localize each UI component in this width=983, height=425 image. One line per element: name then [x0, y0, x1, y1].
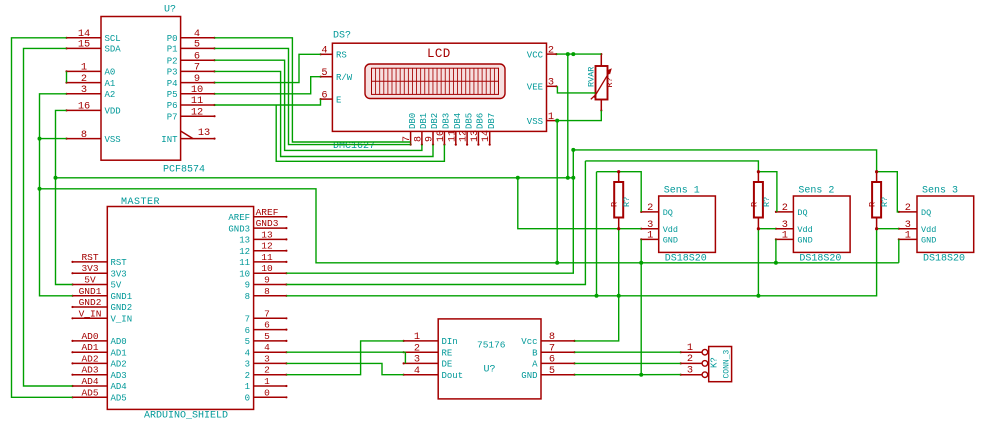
net label 3 (right) — [264, 353, 270, 364]
svg-text:4: 4 — [414, 365, 420, 377]
resistor R2 top pin — [757, 171, 759, 182]
pin name DB2 of DS1 — [430, 113, 440, 129]
svg-text:3: 3 — [414, 354, 420, 366]
svg-text:8: 8 — [245, 292, 250, 302]
svg-text:GND: GND — [921, 236, 936, 246]
junction LCD VSS drop — [555, 119, 559, 123]
sensor S2 DS18S20 body — [793, 196, 850, 252]
svg-text:DB3: DB3 — [442, 113, 452, 129]
svg-text:75176: 75176 — [477, 340, 506, 351]
pin name VEE of DS1 — [527, 83, 543, 93]
net label GND3 (right) — [256, 218, 279, 229]
IC U1 PCF8574 body — [101, 17, 181, 161]
junction 5V bus at D10 riser — [571, 176, 575, 180]
pin 2 A1 of U1 (left stub) — [65, 82, 101, 84]
svg-text:Sens 2: Sens 2 — [798, 186, 834, 197]
pin name RE of U3 — [442, 348, 453, 358]
svg-text:Vdd: Vdd — [797, 225, 812, 235]
svg-text:2: 2 — [245, 371, 250, 381]
svg-text:8: 8 — [81, 129, 87, 141]
svg-text:5: 5 — [264, 331, 270, 342]
svg-text:LCD: LCD — [427, 47, 451, 61]
svg-text:9: 9 — [245, 281, 250, 291]
label DS1 value DMC1627 — [333, 141, 375, 152]
pin name SDA of U1 — [105, 45, 122, 55]
pin name 1 of U2 — [245, 382, 250, 392]
label R4 name RVAR — [587, 67, 597, 87]
pin name VSS of DS1 — [527, 117, 543, 127]
svg-text:7: 7 — [194, 62, 200, 74]
pin number 13 of DS1 — [470, 130, 481, 142]
junction 5V line at D8 riser — [595, 294, 599, 298]
pin name E of DS1 — [336, 95, 341, 105]
pin 4 P0 of U1 (right stub) — [181, 37, 216, 39]
svg-text:ARDUINO_SHIELD: ARDUINO_SHIELD — [144, 411, 228, 422]
pin number 4 of DS1 — [321, 45, 327, 57]
wire net SCL: U1.SCL to U2.AD5 — [12, 38, 73, 398]
svg-text:A2: A2 — [105, 90, 116, 100]
resistor R3 body — [872, 182, 881, 218]
wire net DQ3: R3 top to S3.DQ — [877, 172, 899, 212]
label S3 name Sens 3 — [922, 186, 958, 197]
net label 5 (right) — [264, 331, 270, 342]
svg-text:2: 2 — [687, 353, 693, 365]
pin 8 DB1 of DS1 (bottom stub) — [421, 131, 423, 145]
svg-text:U?: U? — [484, 365, 496, 376]
svg-text:12: 12 — [239, 247, 250, 257]
pin name 11 of U2 — [239, 258, 250, 268]
pin 8 of U2 (right stub) — [254, 295, 288, 297]
pin number 7 of DS1 — [402, 136, 413, 142]
pin name 0 of U2 — [245, 394, 250, 404]
pin name GND2 of U2 — [111, 303, 133, 313]
pin 10 of U2 (right stub) — [254, 272, 288, 274]
pin 4 of U2 (right stub) — [254, 351, 288, 353]
svg-text:GND1: GND1 — [111, 292, 133, 302]
svg-text:GND: GND — [797, 236, 812, 246]
wire net GND: U1.VSS to A2 vertical — [40, 138, 67, 140]
svg-text:5V: 5V — [84, 275, 96, 286]
svg-text:P6: P6 — [167, 101, 178, 111]
svg-text:3V3: 3V3 — [111, 269, 127, 279]
connector K1 CONN_3 body — [709, 347, 732, 382]
wire net VSS: RVAR bottom to LCD.VSS — [556, 111, 601, 121]
pin 6 P2 of U1 (right stub) — [181, 59, 216, 61]
pin number 14 of DS1 — [481, 130, 492, 142]
svg-text:Vcc: Vcc — [521, 337, 537, 347]
pin name P5 of U1 — [167, 90, 178, 100]
pin number 3 of U1 — [81, 84, 87, 96]
svg-text:AREF: AREF — [228, 213, 250, 223]
wire net P0 to LCD DB0 (upper) — [215, 38, 411, 142]
net label 6 (right) — [264, 320, 270, 331]
svg-text:B: B — [532, 348, 538, 358]
junction R3 bottom — [875, 227, 878, 230]
net label AD1 — [81, 342, 98, 353]
pin number 3 of S2 — [782, 219, 788, 231]
svg-text:2: 2 — [548, 44, 554, 56]
svg-text:Vdd: Vdd — [663, 225, 678, 235]
svg-text:2: 2 — [647, 202, 653, 214]
LCD module DS1 body — [332, 43, 546, 131]
net label 4 (right) — [264, 342, 270, 353]
pin number 14 of U1 — [78, 28, 90, 40]
net label GND1 — [79, 286, 102, 297]
net label AD3 — [81, 365, 98, 376]
label S3 value DS18S20 — [923, 254, 965, 265]
pin number 1 of S1 — [647, 230, 653, 242]
pin name DB7 of DS1 — [487, 113, 497, 129]
svg-text:P4: P4 — [167, 79, 178, 89]
pin 3 VEE of DS1 (right stub) — [547, 85, 558, 87]
svg-text:0: 0 — [245, 394, 250, 404]
pin name DB4 of DS1 — [453, 113, 463, 129]
svg-text:2: 2 — [414, 342, 420, 354]
junction 5V bus at VDD vertical — [54, 176, 58, 180]
net label 13 (right) — [261, 229, 273, 240]
svg-text:DS?: DS? — [333, 31, 351, 42]
pin AD3 of U2 (left stub) — [71, 374, 107, 376]
pin 11 of U2 (right stub) — [254, 261, 288, 263]
pin 4 Dout of U3 (left stub) — [403, 374, 439, 376]
pin name A of U3 — [532, 360, 538, 370]
pin number 10 of DS1 — [436, 130, 447, 142]
svg-text:P1: P1 — [167, 45, 178, 55]
wire net U3.A to K1.2 — [575, 362, 681, 364]
pin name A2 of U1 — [105, 90, 116, 100]
pin number 5 of DS1 — [321, 67, 327, 79]
pin name VCC of DS1 — [527, 50, 544, 60]
svg-text:R?: R? — [605, 77, 615, 87]
svg-text:Vdd: Vdd — [921, 225, 936, 235]
svg-text:R: R — [868, 202, 878, 207]
pin 3 of U2 (right stub) — [254, 362, 288, 364]
pin number 8 of DS1 — [413, 136, 424, 142]
net label GND2 — [79, 297, 102, 308]
svg-text:2: 2 — [782, 202, 788, 214]
sensor S3 DS18S20 body — [917, 196, 974, 252]
pin name A0 of U1 — [105, 68, 116, 78]
pin 8 VSS of U1 (left stub) — [65, 138, 101, 140]
junction VCC row second dot — [571, 52, 575, 56]
wire net 5V: U1.VDD down to U2.5V — [56, 110, 73, 284]
pin name A1 of U1 — [105, 79, 116, 89]
svg-text:3: 3 — [81, 84, 87, 96]
pin name DIn of U3 — [442, 337, 458, 347]
pin name 3V3 of U2 — [111, 269, 127, 279]
pin 1 GND of S1 — [640, 238, 659, 240]
pin 3 Vdd of S2 — [775, 228, 794, 230]
pin GND3 of U2 (right stub) — [254, 227, 288, 229]
svg-text:Sens 3: Sens 3 — [922, 186, 958, 197]
pin name 6 of U2 — [245, 326, 250, 336]
svg-text:Sens 1: Sens 1 — [664, 186, 700, 197]
svg-text:DE: DE — [442, 360, 453, 370]
pin number 4 of U3 — [414, 365, 420, 377]
pin AD0 of U2 (left stub) — [71, 340, 107, 342]
svg-text:1: 1 — [905, 230, 911, 242]
net label 0 (right) — [264, 387, 270, 398]
junction D10 rail start — [571, 148, 575, 152]
svg-text:14: 14 — [481, 130, 492, 142]
resistor R3 bottom pin — [876, 218, 878, 230]
pin name DQ of S3 — [921, 208, 931, 218]
svg-text:AD3: AD3 — [111, 371, 127, 381]
label S1 value DS18S20 — [665, 254, 707, 265]
svg-text:1: 1 — [414, 331, 420, 343]
svg-text:3: 3 — [264, 353, 270, 364]
pin 11 P6 of U1 (right stub) — [181, 104, 216, 106]
pin number 11 of DS1 — [447, 130, 458, 142]
junction R1 bottom — [617, 227, 620, 230]
wire net GND: U1.A2/VSS down to U2.GND1 — [40, 94, 73, 296]
svg-text:SCL: SCL — [105, 34, 121, 44]
pin name INT of U1 — [161, 135, 178, 145]
wire net 5V bus horizontal — [56, 177, 574, 179]
junction GND rail at A2 vertical — [38, 187, 42, 191]
svg-text:5: 5 — [549, 365, 555, 377]
wire net SDA: U1.SDA to U2.AD4 — [24, 48, 73, 386]
svg-text:9: 9 — [425, 136, 436, 142]
pin number 6 of U1 — [194, 50, 200, 62]
pin 1 of U2 (right stub) — [254, 385, 288, 387]
pin number 12 of U1 — [191, 106, 203, 118]
pin name 9 of U2 — [245, 281, 250, 291]
pin 3V3 of U2 (left stub) — [71, 272, 107, 274]
svg-text:AD4: AD4 — [81, 376, 98, 387]
pin name R/W of DS1 — [336, 73, 353, 83]
label U3 value 75176 — [477, 340, 506, 351]
pin 7 B of U3 (right stub) — [541, 351, 576, 353]
pin number 2 of K1 — [687, 353, 693, 365]
net label 7 (right) — [264, 308, 270, 319]
svg-text:P2: P2 — [167, 56, 178, 66]
label U3 name U? — [484, 365, 496, 376]
pin 4 RS of DS1 (left stub) — [320, 53, 333, 55]
svg-text:AD0: AD0 — [111, 337, 127, 347]
svg-text:DS18S20: DS18S20 — [923, 254, 965, 265]
svg-text:3: 3 — [687, 365, 693, 377]
svg-text:GND: GND — [663, 236, 678, 246]
potentiometer R4 wiper arrow — [591, 68, 612, 99]
svg-text:4: 4 — [245, 348, 250, 358]
wire net E branch to LCD DB3 — [276, 105, 444, 161]
pin name DE of U3 — [442, 360, 453, 370]
wire net R1 bottom drop to 5V line — [618, 229, 620, 296]
pin 1 of K1 (stub with circle) — [680, 349, 708, 355]
svg-text:15: 15 — [78, 39, 90, 51]
svg-text:13: 13 — [198, 127, 210, 139]
svg-text:DQ: DQ — [797, 208, 807, 218]
pin number 10 of U1 — [191, 84, 203, 96]
pin name GND1 of U2 — [111, 292, 133, 302]
net label AREF (right) — [256, 207, 279, 218]
pin name 12 of U2 — [239, 247, 250, 257]
net label 8 (right) — [264, 286, 270, 297]
svg-text:GND: GND — [521, 371, 537, 381]
pin 12 DB5 of DS1 (bottom stub) — [466, 131, 468, 145]
pin name 5 of U2 — [245, 337, 250, 347]
svg-text:RE: RE — [442, 348, 453, 358]
svg-text:1: 1 — [264, 376, 270, 387]
svg-text:AD2: AD2 — [81, 353, 98, 364]
wire net RE-DE tie — [404, 352, 406, 363]
wire net P4 to LCD RS — [215, 54, 321, 82]
svg-text:5V: 5V — [111, 281, 122, 291]
pin number 3 of S1 — [647, 219, 653, 231]
pin name 4 of U2 — [245, 348, 250, 358]
pin 5 P1 of U1 (right stub) — [181, 47, 216, 49]
pin AD5 of U2 (left stub) — [71, 396, 107, 398]
label S2 name Sens 2 — [798, 186, 834, 197]
svg-text:5: 5 — [194, 39, 200, 51]
svg-text:GND3: GND3 — [256, 218, 279, 229]
net label 3V3 — [81, 263, 98, 274]
pin number 1 of DS1 — [548, 111, 554, 123]
wire net D8 rail to R1 top — [597, 171, 619, 173]
label K1 name K? — [710, 357, 720, 368]
pin 6 E of DS1 (left stub) — [320, 98, 333, 100]
wire net Vcc of U3 riser — [575, 296, 619, 341]
pin number 2 of S2 — [782, 202, 788, 214]
label U2 value ARDUINO_SHIELD — [144, 411, 228, 422]
svg-text:7: 7 — [245, 315, 250, 325]
svg-text:6: 6 — [321, 89, 327, 101]
svg-text:5: 5 — [245, 337, 250, 347]
svg-text:MASTER: MASTER — [121, 197, 160, 208]
wire net D8: U2.8 riser to rail — [286, 172, 596, 296]
wire net P3 to LCD DB2 — [215, 71, 434, 156]
wire net GND: S1.GND drop to bus and K1.3 — [640, 239, 642, 374]
sensor S1 DS18S20 body — [659, 196, 716, 252]
svg-text:AREF: AREF — [256, 207, 279, 218]
svg-text:R: R — [749, 202, 759, 207]
net label 9 (right) — [264, 275, 270, 286]
pin number 1 of K1 — [687, 342, 693, 354]
pin 13 INT of U1 (right stub) — [181, 131, 216, 140]
resistor R1 top pin — [618, 171, 620, 182]
wire net GND rail to sensors — [40, 189, 899, 263]
resistor R2 body — [754, 182, 763, 218]
svg-text:U?: U? — [164, 5, 176, 16]
pin number 12 of DS1 — [459, 130, 470, 142]
svg-text:2: 2 — [264, 365, 270, 376]
net label V_IN — [79, 308, 102, 319]
svg-text:INT: INT — [161, 135, 178, 145]
pin number 1 of S2 — [782, 230, 788, 242]
svg-text:12: 12 — [459, 130, 470, 142]
svg-text:8: 8 — [413, 136, 424, 142]
label LCD title — [427, 47, 451, 61]
label R2 name R — [749, 202, 759, 207]
pin 13 DB6 of DS1 (bottom stub) — [477, 131, 479, 145]
potentiometer R4 bottom pin — [600, 100, 602, 112]
svg-text:GND3: GND3 — [228, 224, 250, 234]
pin name GND of S2 — [797, 236, 812, 246]
svg-text:6: 6 — [549, 354, 555, 366]
pin 1 VSS of DS1 (right stub) — [547, 120, 558, 122]
svg-text:AD1: AD1 — [111, 348, 127, 358]
pin name Vdd of S2 — [797, 225, 812, 235]
svg-text:12: 12 — [191, 106, 203, 118]
pin name P2 of U1 — [167, 56, 178, 66]
wire net A0-A1 tie — [66, 71, 68, 82]
pin number 3 of K1 — [687, 365, 693, 377]
pin number 2 of S1 — [647, 202, 653, 214]
svg-text:1: 1 — [245, 382, 250, 392]
wire net GND: S3.GND drop to bus — [898, 239, 900, 262]
svg-text:K?: K? — [710, 357, 720, 368]
pin 15 SDA of U1 (left stub) — [65, 47, 101, 49]
pin number 6 of DS1 — [321, 89, 327, 101]
pin name VSS of U1 — [105, 135, 121, 145]
junction R1 top — [617, 170, 620, 173]
pin AD1 of U2 (left stub) — [71, 351, 107, 353]
potentiometer R4 RVAR body — [596, 66, 608, 100]
svg-text:7: 7 — [402, 136, 413, 142]
pin V_IN of U2 (left stub) — [71, 317, 107, 319]
svg-text:R/W: R/W — [336, 73, 353, 83]
wire net VEE to RVAR wiper — [557, 86, 595, 93]
pin 2 DQ of S2 — [775, 211, 794, 213]
LCD display glyph — [365, 64, 505, 99]
pin name AD3 of U2 — [111, 371, 127, 381]
svg-text:VSS: VSS — [105, 135, 121, 145]
pin 7 P3 of U1 (right stub) — [181, 70, 216, 72]
svg-text:P7: P7 — [167, 112, 178, 122]
svg-text:DB6: DB6 — [476, 113, 486, 129]
pin name 7 of U2 — [245, 315, 250, 325]
svg-text:GND2: GND2 — [79, 297, 102, 308]
svg-text:4: 4 — [321, 45, 327, 57]
wire net U2.3 to U3.Dout — [286, 363, 403, 374]
svg-text:4: 4 — [264, 342, 270, 353]
svg-text:0: 0 — [264, 387, 270, 398]
svg-text:11: 11 — [191, 95, 203, 107]
pin number 2 of DS1 — [548, 44, 554, 56]
pin 3 of K1 (stub with circle) — [680, 372, 708, 378]
svg-text:3V3: 3V3 — [81, 263, 98, 274]
svg-text:5: 5 — [321, 67, 327, 79]
wire net U2.4 to U3.RE — [286, 351, 405, 353]
svg-text:VDD: VDD — [105, 107, 121, 117]
pin name DB0 of DS1 — [408, 113, 418, 129]
pin number 1 of U3 — [414, 331, 420, 343]
pin number 11 of U1 — [191, 95, 203, 107]
pin number 2 of S3 — [905, 202, 911, 214]
svg-text:11: 11 — [447, 130, 458, 142]
svg-text:P3: P3 — [167, 68, 178, 78]
svg-text:DB5: DB5 — [464, 113, 474, 129]
svg-text:10: 10 — [261, 263, 273, 274]
pin AREF of U2 (right stub) — [254, 216, 288, 218]
svg-text:8: 8 — [264, 286, 270, 297]
label U1 name U? — [164, 5, 176, 16]
pin name Vdd of S3 — [921, 225, 936, 235]
resistor R1 bottom pin — [618, 218, 620, 230]
pin RST of U2 (left stub) — [71, 261, 107, 263]
pin 3 DE of U3 (left stub) — [403, 362, 439, 364]
potentiometer R4 top pin — [600, 53, 602, 66]
wire net D9 rail to R2 top — [585, 161, 758, 172]
wire net P6 to LCD E — [215, 99, 321, 105]
svg-text:DB1: DB1 — [419, 113, 429, 129]
label U2 name MASTER — [121, 197, 160, 208]
pin 2 of U2 (right stub) — [254, 374, 288, 376]
label DS1 name DS? — [333, 31, 351, 42]
pin number 2 of U1 — [81, 73, 87, 85]
pin name GND of U3 — [521, 371, 537, 381]
